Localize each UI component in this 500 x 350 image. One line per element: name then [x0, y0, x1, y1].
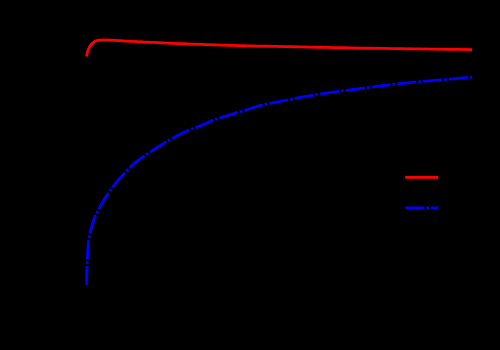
- red solid curve: [87, 40, 472, 57]
- legend blue dash-dot line sample: [405, 206, 438, 209]
- blue dash-dot curve: [87, 77, 473, 285]
- legend red line sample: [405, 176, 438, 179]
